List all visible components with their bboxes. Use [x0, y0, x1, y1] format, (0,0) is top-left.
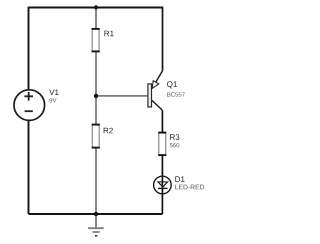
wire left vertical upper (top rail to V1 positive)	[28, 7, 30, 90]
Q1 base bar	[148, 84, 152, 107]
resistor R1	[92, 29, 114, 52]
R1 body	[92, 29, 99, 52]
D1 cathode bar	[158, 187, 168, 189]
value LED-RED	[175, 185, 204, 190]
value BC557	[167, 92, 185, 96]
label R1	[104, 31, 113, 37]
D1 body circle	[154, 176, 172, 194]
R2 body	[92, 125, 99, 148]
node A junction R1/R2/base	[94, 94, 98, 98]
R3 body	[159, 133, 166, 156]
wire left vertical lower (V1 negative to bottom rail)	[28, 120, 30, 214]
value 9V	[49, 98, 56, 102]
wire right vertical (Q1 collector to R3)	[161, 110, 163, 132]
ground bar 2	[92, 231, 99, 233]
wire top horizontal (V1+ to Q1 emitter rail)	[29, 7, 163, 9]
label V1	[49, 90, 58, 96]
wire bottom horizontal (ground rail)	[29, 213, 163, 215]
wire base horizontal (node A to Q1 base)	[96, 95, 148, 97]
V1 body circle	[14, 90, 45, 121]
label D1	[175, 176, 184, 182]
ground stem	[95, 214, 97, 228]
Q1 emitter lead	[152, 71, 163, 89]
wire right vertical upper (top rail to Q1 emitter)	[162, 7, 164, 71]
node junction top rail	[94, 5, 98, 9]
D1 anode triangle	[158, 182, 168, 187]
ground bar 3	[95, 235, 98, 237]
wire middle vertical (top rail to R1)	[95, 8, 97, 29]
resistor R3	[158, 133, 179, 156]
label Q1	[167, 81, 177, 88]
wire middle vertical (R2 to bottom rail)	[95, 148, 97, 214]
LED D1	[154, 176, 205, 194]
resistor R2	[92, 125, 113, 148]
value 560	[170, 143, 180, 147]
node junction bottom rail / ground	[94, 212, 98, 216]
V1 plus sign	[24, 92, 33, 101]
ground	[88, 214, 104, 236]
Q1 collector lead	[152, 100, 163, 110]
ground bar 1	[88, 227, 104, 229]
wire right vertical (R3 to D1 to bottom rail)	[161, 155, 163, 214]
V1 minus sign	[25, 110, 33, 112]
Q1 emitter arrowhead	[152, 81, 159, 89]
battery V1	[14, 90, 59, 121]
transistor Q1 (PNP)	[148, 71, 185, 111]
label R2	[104, 128, 113, 134]
label R3	[170, 134, 179, 140]
wire middle vertical (R1 to node A to R2)	[95, 52, 97, 125]
